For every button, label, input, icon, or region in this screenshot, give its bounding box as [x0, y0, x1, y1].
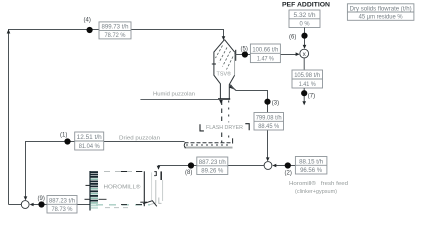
horomill inlet duct	[150, 171, 163, 204]
node 8	[188, 162, 194, 168]
TSV rejects outlet diagonal	[229, 85, 236, 91]
svg-text:105.98 t/h: 105.98 t/h	[294, 73, 320, 79]
svg-text:HOROMILL®: HOROMILL®	[104, 184, 142, 191]
svg-text:(7): (7)	[308, 94, 315, 100]
label FLASH DRYER	[204, 122, 244, 131]
svg-text:(8): (8)	[185, 170, 192, 176]
horomill feed stripes block	[85, 171, 107, 211]
svg-text:96.56 %: 96.56 %	[300, 168, 323, 174]
TSV left tick	[212, 63, 216, 65]
svg-text:887.23 t/h: 887.23 t/h	[199, 160, 226, 166]
stream box 9: 887.23 t/h / 78.73 %	[47, 196, 77, 214]
arrow stream 1 into mixer M1	[24, 196, 28, 200]
stream box 7: 105.98 t/h / 1.41 %	[292, 70, 323, 88]
dried puzzolan wire stream 1	[26, 142, 185, 200]
svg-text:Humid puzzolan: Humid puzzolan	[153, 92, 195, 98]
wire return from mixer M1 to left riser	[9, 204, 22, 206]
svg-text:88.15 t/h: 88.15 t/h	[299, 159, 323, 165]
arrow stream 9 into mixer M1	[30, 203, 34, 207]
svg-text:TSV®: TSV®	[217, 70, 232, 77]
svg-text:100.66 t/h: 100.66 t/h	[252, 47, 278, 53]
multiplier X	[300, 49, 309, 58]
svg-text:(5): (5)	[241, 47, 248, 53]
node 1	[64, 138, 70, 144]
flash dryer neck joint	[218, 98, 230, 100]
stream box 4: 899.73 t/h / 78.72 %	[99, 22, 131, 39]
svg-text:799.08 t/h: 799.08 t/h	[256, 115, 282, 121]
flash dryer riser left (dashed)	[221, 101, 223, 143]
svg-text:88.45 %: 88.45 %	[258, 124, 280, 130]
TSV internal vanes (dashed)	[216, 46, 234, 70]
svg-text:89.26 %: 89.26 %	[201, 169, 224, 175]
svg-text:78.72 %: 78.72 %	[105, 33, 127, 39]
TSV outlet bracket right	[235, 50, 237, 61]
wire stream 7	[303, 58, 305, 70]
svg-text:78.73 %: 78.73 %	[52, 207, 74, 213]
legend box: Dry solids flowrate / 45 um residue	[347, 4, 414, 21]
arrow into mixer M2 top	[266, 157, 270, 161]
stream box 8: 887.23 t/h / 89.26 %	[197, 157, 228, 175]
svg-text:899.73 t/h: 899.73 t/h	[102, 25, 129, 31]
stream box 5: 100.66 t/h / 1.47 %	[250, 44, 280, 63]
svg-text:(3): (3)	[272, 101, 279, 107]
flash dryer label brackets	[200, 124, 249, 131]
node 6	[301, 33, 307, 39]
svg-text:(clinker+gypsum): (clinker+gypsum)	[295, 189, 337, 195]
arrow into multiplier X	[296, 52, 300, 56]
mixer M2	[264, 162, 272, 170]
node 4	[87, 27, 93, 33]
wire humid puzzolan feed	[140, 99, 219, 101]
stream box 6: 5.32 t/h / 0 %	[289, 10, 320, 28]
svg-text:1.41 %: 1.41 %	[299, 82, 317, 88]
stream box 1: 12.51 t/h / 81.04 %	[75, 132, 104, 150]
svg-text:FLASH DRYER: FLASH DRYER	[206, 125, 243, 131]
stream box 3: 799.08 t/h / 88.45 %	[254, 113, 284, 131]
svg-text:0 %: 0 %	[300, 22, 311, 28]
wire stream 4 top horizontal	[9, 30, 224, 205]
flash dryer riser right (dashed)	[228, 101, 230, 143]
svg-text:Dried puzzolan: Dried puzzolan	[119, 136, 160, 142]
svg-text:81.04 %: 81.04 %	[79, 144, 101, 150]
svg-text:(9): (9)	[38, 196, 45, 202]
wire stream 9 from mill to mixer M1	[34, 204, 90, 206]
horomill body	[96, 171, 150, 207]
arrow down into TSV top	[222, 36, 226, 40]
arrow up at top-left corner	[7, 29, 11, 33]
svg-text:(4): (4)	[84, 18, 91, 24]
svg-text:5.32 t/h: 5.32 t/h	[294, 13, 316, 19]
svg-text:Dry solids flowrate (t/h): Dry solids flowrate (t/h)	[350, 6, 412, 12]
svg-text:(6): (6)	[289, 34, 296, 40]
wire stream 3 rejects	[230, 85, 268, 160]
svg-text:1.47 %: 1.47 %	[257, 57, 275, 63]
svg-text:(2): (2)	[285, 170, 292, 176]
svg-text:Horomill® fresh feed: Horomill® fresh feed	[289, 180, 348, 187]
mixer M1 (bottom-left)	[21, 201, 29, 209]
arrow humid puzzolan into riser	[219, 100, 223, 104]
node 7	[301, 90, 307, 96]
horomill discharge elbow	[140, 198, 161, 207]
svg-text:45 µm residue %: 45 µm residue %	[359, 15, 404, 21]
arrow product out	[302, 101, 306, 105]
node 2	[285, 162, 291, 168]
wire stream 8 mixer M2 to mill inlet	[159, 166, 264, 169]
wire below box 7	[303, 88, 305, 104]
arrow into multiplier top	[303, 45, 307, 49]
node 3	[264, 99, 270, 105]
TSV classifier body	[214, 40, 235, 99]
svg-text:887.23 t/h: 887.23 t/h	[49, 198, 75, 204]
node 5	[242, 51, 248, 57]
svg-text:12.51 t/h: 12.51 t/h	[77, 135, 102, 141]
arrow stream 8 into mill duct	[157, 166, 161, 170]
node 9	[38, 201, 44, 207]
svg-text:PEF ADDITION: PEF ADDITION	[282, 2, 330, 9]
wire stream 2 fresh feed	[274, 165, 328, 167]
wire stream 5 to multiplier	[236, 54, 299, 56]
wire stream 6 down to multiplier	[304, 28, 306, 48]
stream box 2: 88.15 t/h / 96.56 %	[295, 157, 327, 175]
arrow stream 2 into mixer M2	[272, 164, 276, 168]
svg-text:(1): (1)	[60, 133, 67, 139]
flash dryer bottom duct	[184, 138, 232, 148]
